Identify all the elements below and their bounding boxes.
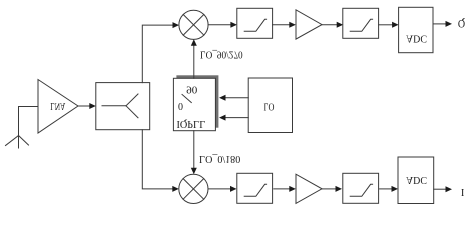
wire amp to filter 2 (Q path)	[322, 22, 343, 28]
oscillator LO	[248, 78, 292, 133]
IQPLL block	[173, 75, 218, 130]
wire IQPLL to mixer Q	[191, 39, 197, 78]
wire splitter to I mixer	[142, 130, 179, 192]
wire ADC to Q output	[433, 21, 452, 27]
wire IQPLL to mixer I	[191, 131, 197, 175]
mixer Q	[179, 10, 208, 39]
svg-text:Q: Q	[458, 17, 465, 31]
wire LO to IQPLL upper	[219, 115, 248, 121]
svg-text:ADC: ADC	[406, 174, 427, 185]
whole diagram drawn in readable orientation, flipped vertically to match source	[6, 7, 466, 203]
wire LO to IQPLL lower	[219, 95, 248, 101]
wire filter to amp (Q path)	[273, 22, 296, 28]
wire splitter to Q mixer	[142, 22, 179, 83]
mixer I	[179, 174, 208, 203]
splitter	[96, 83, 150, 130]
svg-text:I: I	[461, 186, 465, 197]
wire antenna to LNA	[19, 106, 39, 108]
wire amp to filter 2 (I path)	[322, 186, 342, 192]
svg-text:ADC: ADC	[406, 33, 427, 44]
svg-text:LNA: LNA	[50, 100, 66, 111]
amplifier A1 (I path)	[296, 174, 322, 203]
amplifier A1 (Q path)	[296, 10, 322, 39]
wire filter 2 to ADC (I path)	[380, 186, 398, 192]
antenna	[6, 107, 29, 149]
svg-text:90: 90	[186, 84, 197, 95]
filter F2 (I path)	[343, 173, 379, 203]
wire LNA to splitter	[78, 103, 96, 109]
wire filter to amp (I path)	[274, 186, 296, 192]
wire ADC to I output	[434, 186, 452, 192]
svg-text:LO_90/270: LO_90/270	[200, 48, 243, 59]
filter F2 (Q path)	[343, 8, 379, 38]
svg-text:LO_0/180: LO_0/180	[199, 153, 240, 164]
ADC (Q path)	[399, 7, 433, 52]
filter F1 (Q path)	[237, 8, 273, 38]
wire mixer I to filter	[208, 186, 237, 192]
wire mixer Q to filter	[208, 22, 237, 28]
amplifier LNA	[38, 80, 78, 134]
ADC (I path)	[398, 157, 434, 204]
svg-text:LO: LO	[264, 101, 275, 112]
wire filter 2 to ADC (Q path)	[379, 22, 399, 28]
svg-text:0: 0	[178, 100, 183, 111]
svg-text:IQPLL: IQPLL	[177, 118, 206, 129]
filter F1 (I path)	[237, 173, 273, 203]
